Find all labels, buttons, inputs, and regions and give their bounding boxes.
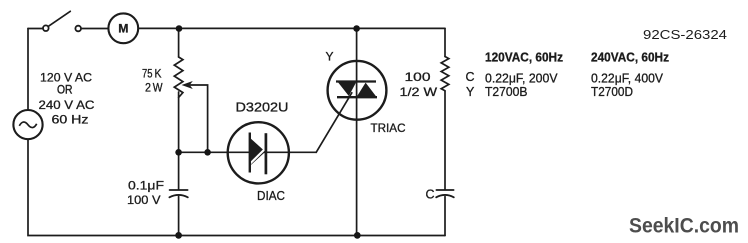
svg-text:120VAC, 60Hz: 120VAC, 60Hz	[485, 51, 563, 65]
svg-text:D3202U: D3202U	[236, 101, 289, 115]
svg-text:2: 2	[145, 80, 151, 94]
svg-text:T2700B: T2700B	[485, 85, 528, 99]
svg-text:SeekIC.com: SeekIC.com	[629, 214, 739, 238]
svg-text:100: 100	[405, 70, 431, 84]
svg-text:W: W	[153, 80, 163, 94]
svg-text:T2700D: T2700D	[591, 85, 633, 99]
svg-text:0.22μF, 400V: 0.22μF, 400V	[591, 72, 664, 86]
svg-text:TRIAC: TRIAC	[371, 121, 406, 135]
svg-text:Y: Y	[326, 50, 334, 64]
svg-text:100 V: 100 V	[127, 193, 161, 207]
svg-text:DIAC: DIAC	[257, 189, 285, 203]
svg-text:Y: Y	[466, 85, 475, 99]
svg-text:0.22μF, 200V: 0.22μF, 200V	[485, 72, 558, 86]
svg-text:0.1μF: 0.1μF	[128, 179, 164, 193]
svg-text:OR: OR	[57, 83, 73, 97]
svg-text:240VAC, 60Hz: 240VAC, 60Hz	[591, 51, 669, 65]
svg-text:K: K	[155, 67, 162, 81]
svg-text:C: C	[426, 188, 435, 202]
svg-text:M: M	[118, 21, 128, 35]
svg-text:75: 75	[142, 67, 153, 81]
svg-text:C: C	[466, 70, 475, 84]
svg-text:92CS-26324: 92CS-26324	[643, 27, 727, 42]
svg-text:240 V AC: 240 V AC	[39, 98, 95, 112]
svg-text:1/2 W: 1/2 W	[400, 85, 438, 99]
svg-text:60 Hz: 60 Hz	[52, 113, 89, 127]
